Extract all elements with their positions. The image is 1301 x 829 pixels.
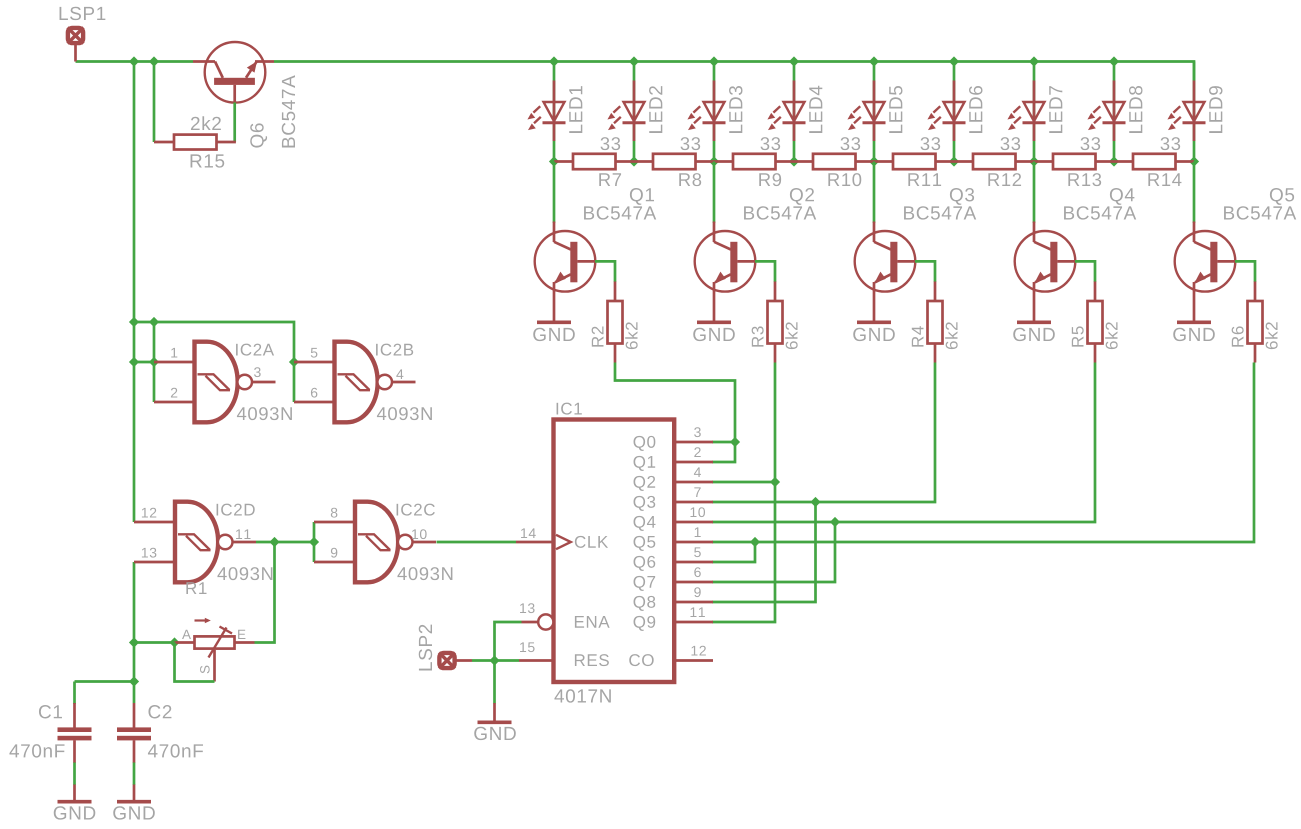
junction LED5 bottom row [869, 156, 879, 166]
label LED7 [1049, 86, 1062, 133]
solder pad LSP2 [439, 653, 472, 669]
junction x154 y322 [149, 317, 159, 327]
transistor Q1 BC547A [535, 222, 596, 321]
junction rail LED5 column [869, 56, 879, 66]
pin number 5 of IC2B [311, 348, 318, 358]
wire net Q4/Q7 from R5 [712, 363, 1095, 523]
transistor Q5 BC547A [1175, 222, 1236, 321]
junction rail LED8 column [1109, 56, 1119, 66]
label A of R1 [182, 630, 191, 639]
LED LED6 [927, 81, 965, 142]
wire link y362 [134, 361, 154, 364]
transistor Q2 BC547A [695, 222, 756, 321]
pin 15 RES of IC1 [519, 642, 609, 666]
label 4017N [554, 689, 610, 702]
wire LED3 column [713, 62, 716, 162]
pin 3 Q0 of IC1 [634, 427, 713, 451]
label Q5 [1270, 188, 1294, 205]
label BC547A of Q3 [904, 206, 976, 219]
pin 5 Q6 of IC1 [634, 547, 713, 571]
junction rail LED4 column [789, 56, 799, 66]
label R13 [1068, 173, 1101, 186]
junction rail LED7 column [1029, 56, 1039, 66]
wire C1 to ground [73, 763, 76, 786]
label R7 [599, 173, 621, 186]
pin 4 Q2 of IC1 [634, 467, 713, 491]
resistor R5 6k2 [1088, 282, 1103, 363]
wire gate feedback top [134, 322, 294, 402]
ground of Q3 [853, 322, 895, 341]
ground of Q1 [533, 322, 575, 341]
label LED9 [1209, 86, 1222, 133]
label LED1 [569, 86, 582, 133]
junction rail LED3 column [709, 56, 719, 66]
label BC547A of Q5 [1224, 206, 1296, 219]
solder pad LSP1 [68, 28, 84, 62]
label R1 under IC2D [186, 582, 206, 594]
resistor R9 33 [714, 154, 794, 169]
wire VCC rail from LSP1 to Q6 collector [76, 60, 194, 63]
junction rail x=134 [129, 56, 139, 66]
resistor R15 2k2 [154, 135, 236, 150]
wire IC2D pin13 bus down [133, 562, 136, 703]
junction LED8 bottom row [1109, 156, 1119, 166]
wire LED7 column [1033, 62, 1036, 162]
label E of R1 [238, 630, 245, 639]
wire Q6 base to R15 [233, 103, 236, 143]
nand gate IC2D 4093N [134, 502, 256, 583]
wire LED6 column [953, 62, 956, 162]
pin 1 Q5 of IC1 [634, 527, 713, 551]
wire LED8 column [1113, 62, 1116, 162]
wire LED1 column [553, 62, 556, 162]
resistor R2 6k2 [608, 282, 623, 363]
label IC2D [217, 504, 255, 516]
resistor R11 33 [874, 154, 954, 169]
junction LED6 bottom row [949, 156, 959, 166]
label BC547A of Q2 [744, 206, 816, 219]
LED LED4 [767, 81, 805, 142]
wire Q4 base to R5 [1075, 261, 1095, 282]
junction bus to C1 [129, 676, 139, 686]
label 4093N of IC2B [377, 407, 432, 420]
label 4093N of IC2A [237, 407, 292, 420]
label LED8 [1129, 86, 1142, 133]
LED LED8 [1087, 81, 1125, 142]
label 33 of R12 [1001, 137, 1021, 150]
wire net Q5/Q6 from R6 [712, 363, 1254, 543]
wire x154 down to IC2A inputs [153, 322, 156, 402]
wire LED column to Q3 collector [873, 162, 876, 224]
ground of Q4 [1013, 322, 1055, 341]
label R10 [828, 173, 861, 186]
junction LED3 bottom row [709, 156, 719, 166]
label C1 [39, 705, 62, 718]
label LSP2 [419, 625, 432, 671]
label R4 [912, 326, 924, 346]
LED LED9 [1167, 81, 1205, 142]
label R2 [592, 327, 604, 347]
wire rail to R15 left [153, 62, 156, 143]
wire LED4 column [793, 62, 796, 162]
junction net Q4/Q7 [830, 517, 840, 527]
wire ENA to RES net [495, 622, 522, 661]
wire net Q6 branch [712, 542, 755, 562]
label IC2C [397, 504, 435, 516]
label 33 of R8 [681, 137, 701, 150]
LED LED5 [847, 81, 885, 142]
wire LED column to Q1 collector [553, 162, 556, 224]
label R12 [988, 173, 1021, 186]
wire Q2 base to R3 [755, 261, 775, 282]
wire LED9 column [1193, 62, 1196, 162]
label R8 [679, 173, 701, 186]
label BC547A of Q6 [282, 75, 295, 147]
junction rail x=154 [149, 56, 159, 66]
pin number 1 of IC2A [171, 348, 177, 358]
wire bus to C1 [75, 680, 135, 683]
junction LED7 bottom row [1029, 156, 1039, 166]
label 2k2 [191, 116, 221, 130]
wire net Q2/Q9 from R3 [712, 363, 775, 623]
junction net Q5/Q6 [750, 537, 760, 547]
label 33 of R13 [1081, 137, 1101, 150]
resistor R12 33 [954, 154, 1034, 169]
resistor R13 33 [1034, 154, 1114, 169]
label LED4 [809, 86, 822, 133]
resistor R4 6k2 [928, 282, 943, 363]
wire LED column to Q5 collector [1193, 162, 1196, 224]
junction LED4 bottom row [789, 156, 799, 166]
wire C1 top lead [73, 682, 76, 705]
label R5 [1072, 326, 1084, 346]
junction net Q3/Q8 [810, 497, 820, 507]
label BC547A of Q4 [1064, 206, 1136, 219]
label Q3 [950, 188, 974, 205]
pin number 9 of IC2C [331, 548, 337, 558]
ground of RES net [474, 703, 516, 740]
LED LED1 [527, 81, 565, 142]
wire LED5 column [873, 62, 876, 162]
label 33 of R9 [761, 137, 781, 150]
pin number 3 of IC2A [254, 367, 261, 377]
pin number 2 of IC2A [171, 388, 177, 398]
junction LED9 bottom row [1189, 156, 1199, 166]
label 6k2 of R6 [1265, 322, 1277, 349]
label 470nF of C1 [9, 744, 64, 757]
label LED6 [969, 86, 982, 133]
junction IC2C input [309, 537, 319, 547]
ground of C2 [113, 785, 155, 820]
label LED2 [649, 86, 662, 133]
wire LED2 column [633, 62, 636, 162]
label 4093N of IC2C [397, 567, 452, 580]
label 470nF of C2 [148, 744, 203, 757]
junction bus y642 [129, 637, 139, 647]
nand gate IC2A 4093N [154, 342, 276, 423]
wire VCC rail from Q6 emitter to LED9 column [274, 62, 1194, 81]
wire Q1 base to R2 [595, 261, 615, 282]
label LSP1 [60, 7, 106, 20]
IC IC1 4017N body [554, 420, 675, 683]
wire Q3 base to R4 [915, 261, 935, 282]
pin 11 Q9 of IC1 [634, 607, 713, 631]
pin 13 ENA of IC1 [520, 603, 610, 629]
label 33 of R7 [601, 137, 621, 150]
pin 12 CO of IC1 [629, 646, 713, 666]
junction pot E riser [269, 537, 279, 547]
label 4093N of IC2D [217, 567, 272, 580]
label 33 of R14 [1161, 137, 1181, 150]
LED LED7 [1007, 81, 1045, 142]
pin number 10 of IC2C [412, 529, 427, 539]
label 33 of R11 [921, 137, 941, 150]
label Q1 [630, 188, 654, 205]
junction x154 y362 [149, 357, 159, 367]
label R9 [759, 173, 781, 186]
nand gate IC2C 4093N [314, 502, 436, 583]
wire IC2D output to IC2C inputs [256, 541, 314, 544]
wire LED column to Q2 collector [713, 162, 716, 224]
ground of Q2 [693, 322, 735, 341]
junction pot A [169, 637, 179, 647]
wire LSP2 to RES [472, 659, 519, 662]
junction rail LED1 column [549, 56, 559, 66]
resistor R8 33 [634, 154, 714, 169]
label LED3 [729, 86, 742, 133]
wire net Q2 spur [712, 481, 775, 484]
transistor Q3 BC547A [855, 222, 916, 321]
junction x134 y322 [129, 317, 139, 327]
wire IC2C output to IC1 CLK [437, 541, 517, 544]
junction rail LED6 column [949, 56, 959, 66]
resistor R7 33 [554, 154, 634, 169]
label 33 of R10 [841, 137, 861, 150]
label Q2 [790, 188, 814, 205]
label R11 [908, 173, 941, 186]
label R15 [191, 154, 225, 167]
resistor R10 33 [794, 154, 874, 169]
label IC2A [236, 344, 274, 356]
capacitor C2 470nF [117, 703, 151, 763]
label Q4 [1110, 188, 1134, 205]
wire net Q8 branch [712, 502, 816, 602]
junction net Q2/Q9 [770, 477, 780, 487]
pin 6 Q7 of IC1 [634, 567, 713, 591]
label Q6 [250, 123, 267, 147]
ground of C1 [54, 785, 96, 820]
nand gate IC2B 4093N [294, 342, 416, 423]
pin 7 Q3 of IC1 [634, 487, 713, 511]
resistor R14 33 [1114, 154, 1194, 169]
resistor R3 6k2 [768, 282, 783, 363]
LED LED2 [607, 81, 645, 142]
pin number 12 of IC2D [142, 508, 156, 518]
label R3 [752, 326, 764, 346]
transistor Q4 BC547A [1015, 222, 1076, 321]
label C2 [148, 705, 171, 718]
wire bus from rail to IC2D pin 12 [133, 62, 136, 523]
junction LED1 bottom row [549, 156, 559, 166]
wire C2 to ground [133, 763, 136, 786]
label 6k2 of R4 [945, 322, 957, 349]
label R14 [1148, 173, 1181, 186]
junction LED2 bottom row [629, 156, 639, 166]
pin 2 Q1 of IC1 [634, 447, 713, 471]
pin number 13 of IC2D [142, 548, 156, 558]
label R6 [1232, 326, 1244, 346]
label IC2B [376, 344, 413, 356]
LED LED3 [687, 81, 725, 142]
pin number 8 of IC2C [331, 508, 338, 518]
junction IC2B pin5 [289, 357, 299, 367]
resistor R6 6k2 [1248, 282, 1263, 363]
junction net Q0/Q1 [730, 437, 740, 447]
wire IC2C input pair [313, 522, 316, 562]
wire pot E up to gate output [255, 542, 275, 643]
pin 9 Q8 of IC1 [634, 587, 713, 611]
junction x134 y362 [129, 357, 139, 367]
capacitor C1 470nF [58, 703, 92, 763]
pin number 11 of IC2D [236, 529, 250, 539]
pin number 6 of IC2B [311, 388, 317, 398]
wire net Q3/Q8 from R4 [712, 363, 935, 503]
wire net Q0/Q1 from R2 [615, 363, 735, 463]
wire LED column to Q4 collector [1033, 162, 1036, 224]
wire Q5 base to R6 [1235, 261, 1255, 282]
wire bus to pot A [134, 641, 175, 644]
label BC547A of Q1 [584, 206, 656, 219]
label 6k2 of R3 [785, 322, 797, 349]
junction rail LED2 column [629, 56, 639, 66]
pin number 4 of IC2B [396, 369, 403, 379]
pin 10 Q4 of IC1 [634, 507, 713, 531]
label LED5 [889, 86, 902, 133]
wire RES net to ground [493, 661, 496, 704]
pin 14 CLK of IC1 [516, 528, 608, 549]
transistor Q6 BC547A [193, 42, 274, 103]
label IC1 [557, 403, 582, 415]
label 6k2 of R2 [625, 322, 637, 349]
wire net Q7 branch [712, 522, 835, 582]
wire net Q0 spur [712, 441, 735, 444]
junction RES net [489, 655, 499, 665]
ground of Q5 [1173, 322, 1215, 341]
label S of R1 [200, 666, 210, 674]
label 6k2 of R5 [1105, 322, 1117, 349]
wire pot S return [175, 643, 215, 682]
potentiometer R1 trimmer [175, 618, 255, 682]
